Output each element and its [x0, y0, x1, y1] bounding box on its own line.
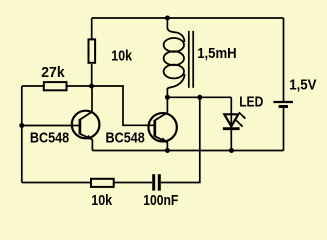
LED D1 cathode bar	[223, 127, 240, 130]
resistor R2 right lead	[68, 85, 92, 87]
svg-text:27k: 27k	[41, 64, 65, 81]
transistor Q2 emitter stroke	[155, 136, 168, 142]
battery B1 positive plate	[273, 101, 293, 103]
transistor Q1 emitter arrowhead	[86, 135, 92, 140]
node LED cathode on rail	[229, 148, 234, 153]
resistor R1 10k body	[89, 39, 96, 62]
transistor Q2 emitter arrowhead	[161, 137, 167, 142]
LED D1 anode wire	[230, 97, 232, 128]
node inductor top on supply rail	[165, 16, 170, 21]
inductor L1 winding	[167, 28, 184, 42]
transistor Q2 BC548 circle	[148, 113, 176, 141]
node inductor bottom / Q2 collector	[165, 95, 170, 100]
wire bottom emitter rail	[92, 150, 283, 152]
LED cathode wire down	[230, 130, 232, 151]
resistor R2 27k left lead	[22, 85, 43, 87]
node Q1 base junction	[19, 123, 24, 128]
resistor R2 27k body	[44, 82, 67, 90]
svg-text:BC548: BC548	[106, 129, 145, 146]
svg-text:10k: 10k	[111, 48, 132, 65]
LED D1 light arrow 2	[236, 120, 242, 126]
transistor Q1 base bar	[79, 119, 82, 134]
inductor L1 core bar 1	[188, 31, 190, 88]
transistor Q1 collector stroke	[80, 112, 92, 120]
wire Q1 emitter down	[91, 139, 93, 150]
svg-text:1,5V: 1,5V	[289, 77, 316, 94]
svg-text:1,5mH: 1,5mH	[197, 45, 237, 62]
transistor Q1 BC548 circle	[72, 111, 100, 139]
wire collector node horizontal	[167, 96, 231, 98]
transistor Q2 collector stroke	[155, 113, 168, 121]
wire Q2 emitter down	[166, 142, 168, 151]
wire Q2 collector up	[166, 97, 168, 112]
inductor L1 core bar 2	[192, 31, 194, 88]
node junction R1/R2/Q1 collector	[89, 84, 94, 89]
svg-text:BC548: BC548	[30, 129, 69, 146]
transistor Q1 emitter stroke	[80, 134, 93, 140]
battery B1 negative plate	[279, 105, 288, 108]
wire Q1 collector up	[91, 86, 93, 112]
wire feedback drop to capacitor	[199, 97, 201, 182]
svg-text:LED: LED	[239, 94, 263, 111]
capacitor C1 plate 2	[158, 174, 161, 190]
resistor R1 bottom lead	[91, 64, 93, 86]
node Q2 emitter on rail	[165, 148, 170, 153]
transistor Q2 base bar	[153, 120, 156, 137]
wire bottom feedback rail left	[22, 182, 91, 184]
wire Q1 base lead	[22, 125, 80, 127]
resistor R3 10k body	[91, 179, 114, 187]
svg-text:100nF: 100nF	[143, 192, 178, 209]
wire right rail to battery +	[283, 18, 285, 101]
wire resistor R3 to capacitor	[115, 182, 153, 184]
resistor R1 10k vertical: top lead	[91, 18, 93, 39]
wire top supply rail	[92, 17, 284, 19]
inductor L1 bottom lead	[166, 88, 168, 97]
inductor L1 top lead	[166, 18, 168, 28]
wire battery - to bottom rail	[283, 108, 285, 151]
capacitor C1 plate 1	[152, 174, 155, 190]
LED D1 light arrow 1	[239, 112, 245, 118]
wire Q2 base feed from node	[92, 86, 155, 125]
svg-text:10k: 10k	[91, 192, 113, 209]
wire left rail	[21, 86, 23, 183]
node feedback tap	[197, 95, 202, 100]
LED D1 triangle	[224, 114, 238, 126]
wire capacitor to feedback drop	[161, 182, 201, 184]
